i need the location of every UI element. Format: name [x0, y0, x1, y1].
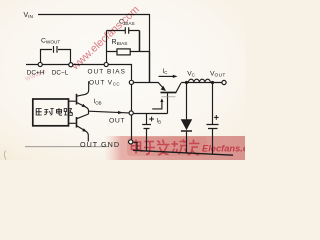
svg-text:IB: IB	[157, 118, 162, 124]
banner glyph 电	[132, 140, 144, 154]
banner glyph 友	[189, 140, 200, 156]
glyph box 动	[44, 109, 54, 116]
driver box U1	[33, 99, 69, 126]
svg-text:VC: VC	[187, 70, 195, 77]
arrowhead IB bent arrow	[160, 98, 163, 102]
arrowhead IOB wire	[118, 111, 123, 114]
wire switch node to VOUT	[181, 82, 222, 84]
capacitor CWOUT plates	[54, 46, 58, 53]
capacitor CWOUT loop wires	[41, 50, 71, 64]
transistor Q2 emitter lead	[77, 102, 89, 114]
svg-text:Elecfans.com: Elecfans.com	[202, 144, 245, 154]
diode branch wire upper	[186, 83, 188, 120]
transistor Q3 bar	[76, 117, 78, 128]
arrowhead Q1 emitter	[161, 86, 166, 91]
glyph box 驱	[36, 109, 42, 116]
svg-text:OUT GND: OUT GND	[80, 140, 120, 149]
capacitor COUT branch wires	[212, 83, 214, 155]
wire OUT BIAS vertical	[106, 31, 108, 63]
junction dot COUT tap	[211, 81, 214, 84]
arrowhead Q2 emitter	[82, 104, 87, 108]
capacitor CB branch wires	[146, 114, 148, 151]
svg-text:DC−L: DC−L	[52, 70, 69, 77]
wire IOB driver output	[89, 111, 130, 113]
banner glyph 发	[157, 140, 170, 156]
resistor RBIAS leads	[107, 51, 150, 53]
wire VIN rail top	[38, 15, 150, 51]
glyph box 电	[57, 108, 63, 115]
glyph box 路	[64, 109, 72, 116]
diode D1 body	[181, 119, 193, 130]
transistor Q1 emitter lead	[150, 83, 166, 91]
wire IB bent arrow	[152, 100, 162, 109]
watermark chain 1 www.elecfans.com	[69, 3, 142, 72]
transistor Q2 collector lead	[77, 81, 89, 96]
ground return line	[133, 150, 233, 155]
pin OUT GND	[129, 140, 133, 144]
banner glyph 烧	[172, 140, 189, 155]
capacitor COUT plates	[207, 125, 219, 129]
pin OUT Vcc	[129, 80, 133, 84]
transistor Q1 base lead	[167, 93, 169, 113]
inductor L humps	[188, 79, 210, 82]
pin OUT BIAS	[104, 62, 108, 66]
transistor Q3 collector lead	[77, 114, 89, 119]
capacitor CBIAS plates	[125, 27, 128, 34]
arrowhead Ic	[173, 75, 178, 78]
wire bias loop right vertical	[139, 31, 141, 52]
plus mark CB	[149, 117, 154, 122]
pin OUT	[129, 111, 133, 115]
plus mark COUT	[214, 115, 219, 120]
svg-text:DC+H: DC+H	[27, 70, 45, 77]
wire module top edge / right edge with pins	[26, 65, 132, 144]
capacitor CB plates	[142, 125, 151, 129]
arrowhead Q3 emitter	[82, 128, 87, 132]
transistor Q1 collector lead	[176, 83, 181, 92]
transistor Q1 bar	[161, 92, 177, 94]
pin VOUT	[222, 80, 226, 84]
module bottom faint edge	[25, 146, 109, 148]
pin DC-L	[69, 63, 73, 67]
transistor Q3 base lead	[69, 122, 76, 124]
wire OUT Vcc pin to VIN vertical	[133, 82, 149, 84]
diode branch wire lower	[186, 131, 188, 154]
capacitor CBIAS branch	[107, 30, 140, 32]
paper background	[0, 0, 245, 160]
resistor RBIAS body	[117, 49, 130, 55]
banner glyph 子	[144, 142, 155, 155]
arrow Ic annotation	[159, 75, 175, 77]
wire OUT pin to base	[133, 113, 167, 115]
wire OUT GND pin to ground	[134, 143, 137, 151]
pin DC+H	[38, 62, 42, 66]
diode D1 cathode bar	[181, 130, 192, 132]
junction dot diode tap	[185, 81, 188, 84]
watermark chain 3 faint www.e	[22, 66, 47, 83]
transistor Q2 base lead	[69, 100, 76, 102]
transistor Q2 bar	[76, 94, 78, 105]
svg-text:OUT: OUT	[109, 117, 125, 124]
transistor Q3 emitter lead	[77, 126, 89, 142]
stray pencil mark bottom-left	[4, 151, 6, 160]
svg-text:OUT BIAS: OUT BIAS	[88, 69, 127, 76]
bottom banner strip	[104, 136, 245, 160]
